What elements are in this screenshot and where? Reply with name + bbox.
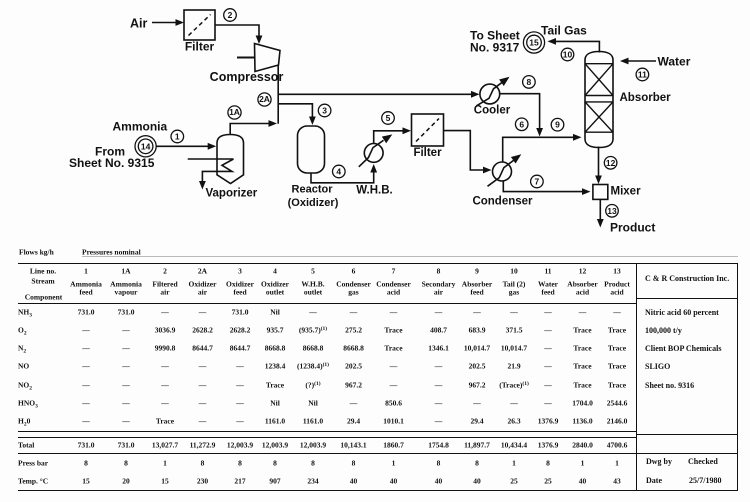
node 4 (333, 165, 346, 178)
svg-text:Filter: Filter (413, 147, 442, 159)
table double rule upper (18, 431, 636, 432)
svg-text:4: 4 (336, 167, 341, 177)
wire ammonia vapour to junction (230, 120, 277, 134)
svg-text:2A: 2A (259, 94, 270, 104)
wire filter F1 to compressor (215, 25, 262, 44)
svg-text:Sheet No. 9315: Sheet No. 9315 (69, 156, 155, 170)
heat exchanger cooler (477, 77, 510, 106)
table row N2 (18, 344, 26, 352)
connector 14 (135, 136, 156, 157)
svg-text:Cooler: Cooler (474, 105, 511, 117)
title block C & R Construction Inc. (645, 275, 729, 283)
svg-text:10: 10 (563, 50, 573, 60)
right box rule under header (636, 298, 738, 299)
node 12 (604, 157, 617, 170)
wire secondary air to cooler (278, 91, 479, 98)
connector 15 (523, 32, 544, 53)
node 2A (258, 93, 271, 106)
wire cooler outlet down (500, 94, 543, 137)
wire filter F2 to condenser (444, 131, 492, 174)
svg-text:Water: Water (658, 55, 691, 69)
wire condenser gas to absorber (503, 134, 582, 162)
wire compressor outlet (277, 65, 279, 124)
svg-text:Condenser: Condenser (472, 196, 533, 208)
svg-text:Mixer: Mixer (611, 186, 642, 198)
right box rule mid (636, 434, 738, 435)
faint frame line (82, 256, 738, 257)
table rule top (18, 263, 738, 265)
table rule bottom (18, 490, 738, 492)
node 13 (606, 205, 619, 218)
table double rule lower (18, 437, 636, 438)
mixer M1 (593, 185, 608, 200)
svg-text:1: 1 (175, 132, 180, 142)
node 9 (551, 118, 564, 131)
filter F1 (184, 10, 215, 40)
node 3 (318, 104, 331, 117)
table caption Pressures nominal (82, 248, 141, 256)
node 1 (171, 130, 184, 143)
svg-text:Compressor: Compressor (210, 70, 284, 84)
svg-text:W.H.B.: W.H.B. (356, 185, 392, 197)
filter F2 (412, 114, 444, 146)
table row HNO3 (18, 399, 38, 407)
svg-text:9: 9 (555, 120, 560, 130)
svg-text:8: 8 (527, 77, 532, 87)
header Line no. / Stream / Component (30, 267, 56, 275)
vertical rule right border (737, 263, 738, 491)
node 8 (523, 76, 536, 89)
node 1A (228, 106, 241, 119)
compressor K1 (237, 44, 280, 72)
svg-text:Absorber: Absorber (620, 92, 672, 104)
svg-text:No. 9317: No. 9317 (470, 41, 520, 55)
svg-text:2: 2 (228, 10, 233, 20)
table row NO (18, 362, 29, 370)
svg-text:7: 7 (535, 177, 540, 187)
wire heating outlet arrow (199, 181, 206, 190)
wire oxidizer feed to reactor (278, 104, 316, 125)
absorber column (585, 52, 613, 148)
vaporizer heating coil (202, 159, 233, 182)
node 10 (561, 48, 574, 61)
svg-text:11: 11 (638, 70, 647, 80)
node 7 (531, 175, 544, 188)
reactor R1 (298, 126, 325, 173)
svg-text:5: 5 (386, 113, 391, 123)
svg-text:6: 6 (519, 119, 524, 129)
node 2 (224, 9, 237, 22)
heat exchanger WHB (359, 134, 393, 166)
svg-text:13: 13 (607, 206, 617, 216)
svg-text:Ammonia: Ammonia (113, 120, 168, 134)
table row Temp. °C (18, 477, 48, 485)
table row Total (18, 441, 34, 449)
svg-text:Filter: Filter (185, 40, 215, 54)
wire water inlet (620, 58, 656, 65)
wire product outlet (597, 199, 604, 227)
wire reactor outlet to WHB (311, 164, 377, 183)
header stream numbers (84, 267, 88, 275)
table row NO2 (18, 381, 32, 389)
wire WHB outlet to filter F2 (374, 127, 411, 143)
svg-text:14: 14 (141, 141, 151, 151)
wire absorber acid to mixer (595, 147, 602, 185)
svg-text:Product: Product (610, 221, 655, 235)
node 6 (515, 118, 528, 131)
svg-text:15: 15 (529, 38, 539, 48)
wire tail gas (548, 38, 600, 53)
header stream names (70, 280, 102, 288)
svg-text:1A: 1A (229, 107, 240, 117)
svg-text:Air: Air (130, 17, 148, 31)
vertical rule separator (636, 263, 637, 491)
wire air to filter F1 (152, 19, 184, 26)
table row O2 (18, 326, 27, 334)
heat exchanger condenser (488, 154, 522, 186)
table rule under total (18, 453, 738, 454)
wire ammonia feed to vaporizer (157, 143, 217, 150)
svg-text:(Oxidizer): (Oxidizer) (288, 197, 339, 209)
table row Press bar (18, 459, 48, 467)
table row H20 (18, 417, 30, 425)
node 5 (382, 112, 395, 125)
svg-text:Reactor: Reactor (292, 184, 334, 196)
node 11 (636, 68, 649, 81)
table rule under header (18, 303, 636, 304)
wire vaporizer heating inlet (188, 158, 234, 160)
svg-text:Vaporizer: Vaporizer (206, 188, 258, 200)
table caption Flows kg/h (19, 248, 54, 256)
svg-text:Tail Gas: Tail Gas (541, 24, 587, 38)
svg-text:12: 12 (606, 158, 616, 168)
vaporizer V1 (217, 135, 244, 184)
svg-text:3: 3 (322, 106, 327, 116)
table row NH3 (18, 308, 32, 316)
wire condenser acid to mixer (503, 181, 590, 195)
